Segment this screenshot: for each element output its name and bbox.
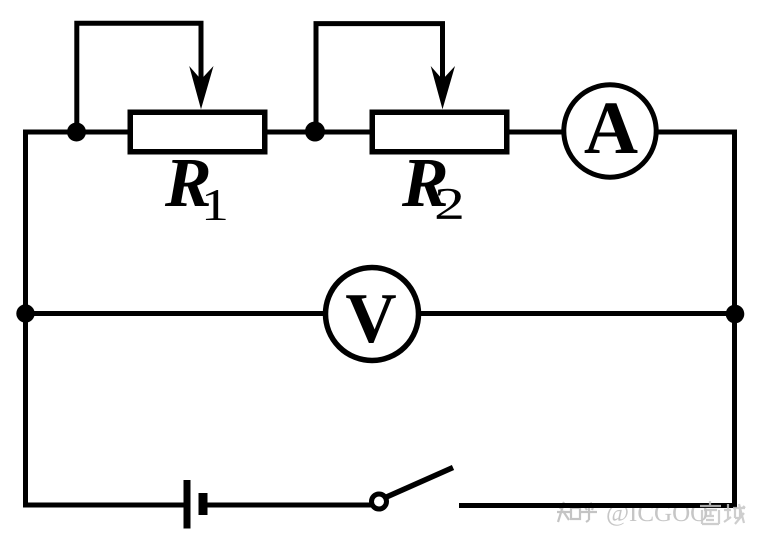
wire: right vertical [732, 130, 737, 509]
svg-text:1: 1 [201, 180, 229, 230]
resistor R2 body [372, 112, 507, 152]
wire: middle right (voltmeter to right) [416, 311, 737, 316]
wire: R1 to R2 horizontal [265, 130, 372, 135]
wire: left vertical (top corner down to bottom corner) [23, 130, 28, 508]
wire: bottom left (to battery) [23, 503, 184, 508]
battery long plate [184, 480, 191, 529]
battery short plate [199, 493, 208, 515]
watermark 知 glyph [557, 502, 580, 522]
wire: R2 to ammeter [507, 130, 565, 135]
rheostat R2 slider arrowhead [431, 66, 455, 109]
rheostat R2 slider loop wire [316, 24, 443, 131]
wire: switch to bottom-right corner [459, 503, 737, 508]
svg-text:2: 2 [434, 179, 465, 229]
switch blade [387, 468, 454, 498]
switch pivot circle [372, 494, 387, 509]
watermark 商 glyph [700, 501, 721, 524]
wire: middle left (to voltmeter) [23, 311, 328, 316]
rheostat R1 slider arrowhead [189, 66, 213, 109]
rheostat R1 slider loop wire [77, 23, 201, 131]
wire: top-left horizontal (corner to R1) [23, 130, 130, 135]
junction dot node D (right mid) [726, 305, 745, 324]
watermark 乎 glyph [581, 503, 597, 522]
resistor R1 body [130, 112, 265, 152]
junction dot node C (left mid) [16, 304, 34, 322]
junction dot node B (left of R2) [305, 122, 325, 142]
voltmeter V body [326, 268, 419, 361]
svg-text:V: V [345, 280, 396, 358]
svg-text:A: A [584, 87, 638, 170]
wire: ammeter to top-right corner [656, 130, 737, 135]
wire: battery to switch [207, 503, 371, 508]
junction dot node A (left of R1) [67, 123, 86, 142]
watermark 城 glyph [724, 504, 745, 524]
ammeter A body [564, 85, 656, 177]
